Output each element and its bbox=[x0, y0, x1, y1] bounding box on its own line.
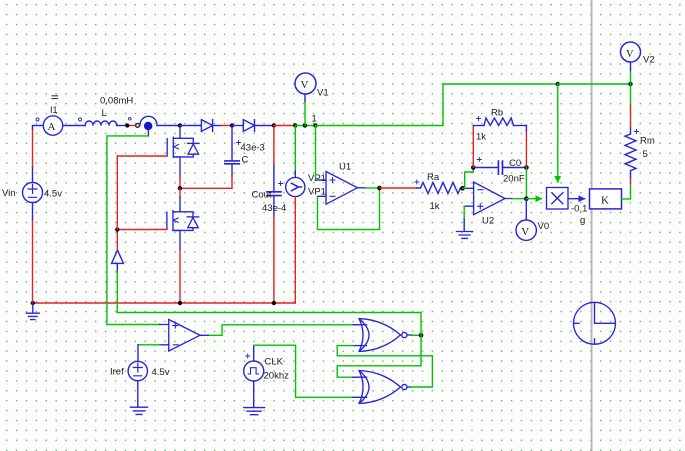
node U2 output bbox=[524, 196, 529, 201]
voltage source Vin bbox=[23, 183, 43, 203]
node C0 right bbox=[524, 165, 529, 170]
svg-text:Ra: Ra bbox=[427, 172, 440, 183]
wire gate junction up bbox=[116, 156, 118, 230]
svg-text:V: V bbox=[521, 226, 529, 238]
nor gate NOR2 bbox=[359, 371, 411, 404]
svg-text:1: 1 bbox=[312, 114, 317, 125]
wire U2 plus to ground bbox=[463, 206, 465, 219]
svg-text:Rb: Rb bbox=[491, 108, 503, 119]
wire junction4 to junction6 bbox=[295, 125, 315, 127]
switch contact bbox=[136, 124, 140, 128]
gain block K bbox=[590, 189, 622, 209]
resistor Rm 5 bbox=[630, 84, 632, 105]
resistor Rb 1k bbox=[472, 126, 474, 168]
wire comparator minus to Iref bbox=[138, 344, 160, 346]
node bottom rail at Vin bbox=[31, 301, 35, 305]
svg-text:CLK: CLK bbox=[265, 357, 284, 368]
wire U1 out to Ra bbox=[380, 187, 417, 189]
svg-text:U2: U2 bbox=[482, 216, 494, 227]
wire K to Rm bbox=[622, 184, 631, 199]
op-amp U1 bbox=[318, 172, 367, 205]
op-amp U2 bbox=[463, 182, 512, 215]
node rail junction 4 bbox=[293, 123, 297, 127]
node rail junction 6 bbox=[313, 123, 317, 127]
resistor Ra 1k bbox=[421, 183, 463, 194]
gate wire Q2 bbox=[117, 229, 167, 231]
capacitor C0 20nF bbox=[473, 161, 526, 174]
svg-text:20nF: 20nF bbox=[503, 174, 525, 185]
mosfet Q1 (upper) bbox=[167, 126, 199, 177]
ammeter I1 bbox=[36, 116, 82, 135]
wire Vin bottom bbox=[32, 203, 34, 221]
voltmeter V1 bbox=[304, 101, 306, 126]
wire latch output to gate driver bbox=[117, 313, 421, 336]
ground at U2 bbox=[457, 232, 473, 239]
wire comparator output to NOR1 input A bbox=[210, 325, 354, 336]
inductor L 0,08mH bbox=[85, 121, 117, 126]
wire rail to diode D1 bbox=[180, 125, 201, 127]
voltmeter V2 bbox=[630, 70, 632, 84]
node bottom rail at Cout bbox=[272, 301, 276, 305]
svg-text:L: L bbox=[102, 108, 107, 119]
svg-text:g: g bbox=[580, 215, 585, 226]
node NOR1 output bbox=[419, 333, 424, 338]
diode D1 bbox=[201, 120, 220, 132]
svg-text:1k: 1k bbox=[476, 132, 486, 143]
multiplier X bbox=[547, 188, 569, 210]
node Ra to U2 minus bbox=[460, 186, 465, 191]
wire inductor to switch node bbox=[117, 125, 128, 127]
svg-text:V: V bbox=[626, 49, 634, 60]
wire rail to U1 plus input bbox=[315, 126, 317, 181]
wire Vin to ammeter bbox=[32, 167, 34, 183]
svg-text:-0.1: -0.1 bbox=[571, 204, 587, 215]
buffer gate driver bbox=[112, 250, 124, 263]
svg-text:A: A bbox=[48, 121, 56, 133]
node rail junction 2 bbox=[230, 123, 234, 127]
ground at Vin bbox=[26, 303, 39, 320]
node top-right junction A bbox=[556, 82, 560, 86]
wire C0 left branch bbox=[463, 168, 474, 189]
mosfet Q2 (lower) bbox=[167, 211, 199, 250]
svg-text:43e-3: 43e-3 bbox=[241, 143, 265, 154]
svg-text:Iref: Iref bbox=[110, 367, 124, 378]
svg-text:Vin: Vin bbox=[2, 188, 16, 199]
wire CLK to ground bbox=[253, 381, 255, 407]
svg-text:43e-4: 43e-4 bbox=[262, 203, 286, 214]
wire junction3 to junction4 bbox=[274, 125, 295, 127]
node C0 left bbox=[471, 165, 476, 170]
node bottom rail at Q2 bbox=[178, 301, 182, 305]
gate wire Q1 bbox=[117, 155, 167, 157]
wire multiplier to K bbox=[568, 198, 585, 200]
wire C bottom to Q1 source bbox=[180, 187, 232, 189]
svg-text:U1: U1 bbox=[339, 162, 351, 173]
clock icon bbox=[574, 302, 616, 344]
svg-text:I1: I1 bbox=[50, 105, 58, 115]
svg-text:Cout: Cout bbox=[252, 190, 272, 201]
svg-text:4.5v: 4.5v bbox=[152, 367, 170, 378]
wire Q2 source to bottom rail bbox=[179, 250, 181, 303]
wire sensor to rail bbox=[157, 125, 180, 127]
page divider line bbox=[591, 0, 593, 451]
svg-text:V1: V1 bbox=[317, 88, 329, 99]
node rail junction 3 bbox=[272, 123, 276, 127]
capacitor Cout bbox=[273, 126, 275, 166]
node rail junction 1 bbox=[178, 123, 182, 127]
nor gate NOR1 bbox=[353, 319, 412, 352]
wire CLK to NOR2 input B bbox=[253, 345, 255, 361]
svg-text:C0: C0 bbox=[509, 158, 521, 169]
ground at CLK bbox=[244, 408, 265, 415]
wire Iref to ground bbox=[137, 381, 139, 407]
svg-text:5: 5 bbox=[643, 149, 648, 160]
wire U2 output node bbox=[512, 198, 526, 200]
svg-text:C: C bbox=[242, 155, 249, 166]
svg-text:1k: 1k bbox=[430, 201, 440, 212]
wire U1 output bbox=[366, 187, 380, 189]
wire D1 to node bbox=[221, 125, 232, 127]
wire to V2 branch bbox=[558, 83, 631, 85]
source Iref bbox=[128, 361, 147, 380]
svg-text:Rm: Rm bbox=[640, 136, 655, 147]
svg-text:K: K bbox=[601, 195, 609, 207]
current sensor node bbox=[140, 116, 157, 125]
wire to Q2 drain bbox=[179, 188, 181, 197]
svg-text:VP1: VP1 bbox=[308, 173, 326, 184]
node U1 output bbox=[377, 186, 382, 191]
node rail junction 5 bbox=[303, 123, 307, 127]
svg-text:0,08mH: 0,08mH bbox=[100, 96, 133, 107]
voltmeter V0 bbox=[525, 199, 527, 220]
ground at Iref bbox=[131, 407, 148, 414]
wire U1 feedback bbox=[318, 188, 380, 230]
wire top feed to multiplier bbox=[557, 84, 559, 182]
wire NOR1 output bbox=[412, 334, 421, 336]
svg-text:V0: V0 bbox=[538, 221, 550, 232]
svg-text:4.5v: 4.5v bbox=[44, 189, 62, 200]
wire gate-drive riser bbox=[116, 271, 118, 313]
probe VP1 bbox=[294, 126, 296, 172]
wire U2 out to multiplier bbox=[526, 198, 541, 200]
node top-right junction B bbox=[628, 82, 632, 86]
wire ammeter to inductor bbox=[63, 125, 85, 127]
comparator COMP1 bbox=[160, 320, 210, 352]
bottom rail bbox=[33, 302, 296, 304]
diode D2 bbox=[243, 120, 274, 132]
svg-text:20khz: 20khz bbox=[264, 371, 290, 382]
node gate junction bbox=[115, 227, 119, 231]
wire NOR1 out to NOR2 input A bbox=[337, 335, 421, 377]
svg-text:V2: V2 bbox=[643, 55, 655, 66]
source CLK bbox=[244, 361, 264, 381]
wire NOR2 out to NOR1 input B bbox=[337, 346, 432, 387]
capacitor C bbox=[231, 126, 233, 161]
wire current-sense tap bbox=[147, 130, 149, 136]
svg-text:V: V bbox=[301, 79, 309, 91]
wire node to diode D2 bbox=[232, 125, 243, 127]
wire output rail to riser bbox=[316, 84, 558, 126]
node source junction bbox=[178, 186, 182, 190]
